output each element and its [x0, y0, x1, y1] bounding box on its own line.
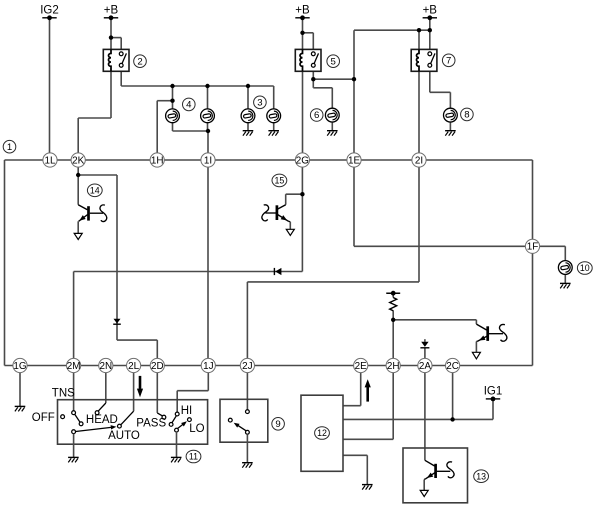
svg-text:2J: 2J — [242, 361, 252, 372]
svg-text:2A: 2A — [419, 361, 431, 372]
svg-text:HI: HI — [181, 405, 193, 417]
svg-text:13: 13 — [476, 471, 486, 481]
svg-text:1H: 1H — [151, 155, 164, 166]
svg-text:2I: 2I — [415, 155, 423, 166]
svg-text:TNS: TNS — [52, 388, 75, 400]
svg-text:3: 3 — [257, 98, 262, 109]
svg-text:1G: 1G — [13, 361, 26, 372]
svg-text:2E: 2E — [355, 361, 367, 372]
svg-text:1F: 1F — [527, 242, 539, 253]
svg-text:1: 1 — [7, 142, 12, 153]
svg-text:2M: 2M — [67, 361, 81, 372]
svg-text:14: 14 — [90, 186, 100, 196]
svg-text:2L: 2L — [128, 361, 139, 372]
svg-text:2G: 2G — [296, 155, 309, 166]
svg-text:2K: 2K — [72, 155, 84, 166]
svg-text:11: 11 — [189, 452, 198, 462]
svg-text:1L: 1L — [45, 155, 56, 166]
svg-text:2D: 2D — [151, 361, 164, 372]
svg-text:2N: 2N — [99, 361, 112, 372]
svg-text:10: 10 — [580, 263, 590, 273]
svg-text:+B: +B — [423, 5, 438, 17]
svg-text:HEAD: HEAD — [86, 414, 118, 426]
svg-text:AUTO: AUTO — [108, 430, 140, 442]
svg-text:1E: 1E — [348, 155, 360, 166]
svg-text:15: 15 — [275, 176, 285, 186]
svg-text:2H: 2H — [387, 361, 400, 372]
svg-text:7: 7 — [446, 56, 451, 67]
svg-text:IG1: IG1 — [484, 386, 503, 398]
svg-text:+B: +B — [104, 5, 119, 17]
svg-text:IG2: IG2 — [40, 5, 59, 17]
svg-text:2C: 2C — [446, 361, 459, 372]
svg-text:4: 4 — [186, 100, 192, 111]
svg-text:9: 9 — [275, 419, 280, 430]
svg-text:12: 12 — [317, 428, 327, 438]
svg-text:+B: +B — [295, 5, 310, 17]
svg-text:6: 6 — [314, 110, 319, 121]
svg-text:1J: 1J — [203, 361, 213, 372]
svg-text:LO: LO — [189, 423, 204, 435]
svg-text:2: 2 — [137, 56, 142, 67]
svg-text:PASS: PASS — [136, 418, 166, 430]
svg-text:5: 5 — [331, 56, 336, 67]
svg-text:1I: 1I — [204, 155, 212, 166]
svg-text:8: 8 — [464, 110, 469, 121]
svg-text:OFF: OFF — [32, 412, 55, 424]
